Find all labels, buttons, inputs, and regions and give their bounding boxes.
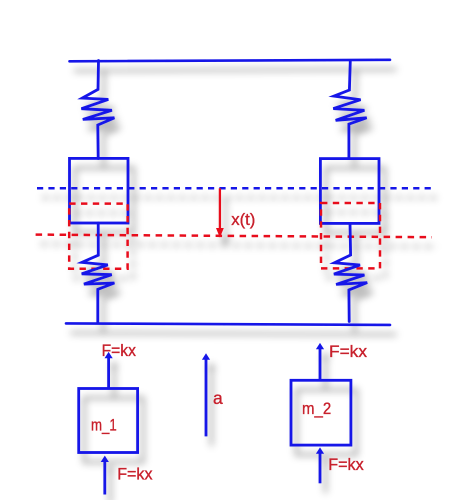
svg-text:F=kx: F=kx: [117, 465, 153, 484]
displaced dashed line (red): [36, 235, 432, 238]
spring K3 lower-left: [82, 223, 115, 323]
FBD left: spring force arrow up (bottom): [101, 456, 109, 495]
displaced mass left (red dashed): [69, 204, 127, 269]
spring K4 lower-right: [334, 223, 367, 321]
FBD right: mass box m_2: [291, 380, 351, 445]
FBD right: spring force arrow up (top): [316, 343, 324, 380]
svg-text:m_2: m_2: [302, 400, 331, 418]
mass block right (solid): [320, 159, 379, 224]
FBD left: mass box m_1: [79, 389, 138, 453]
spring K1 upper-left: [81, 61, 114, 159]
svg-text:x(t): x(t): [231, 210, 255, 229]
displaced mass right (red dashed): [321, 203, 380, 268]
bottom fixed wall line: [66, 323, 390, 325]
svg-text:a: a: [213, 388, 223, 408]
FBD right: spring force arrow up (bottom): [316, 447, 324, 483]
svg-text:F=kx: F=kx: [329, 342, 368, 361]
displacement arrow x(t): [216, 188, 224, 237]
equilibrium dashed line (blue): [37, 187, 434, 190]
svg-text:F=kx: F=kx: [328, 455, 364, 474]
FBD left: spring force arrow up (top): [105, 352, 113, 388]
svg-text:F=kx: F=kx: [102, 341, 137, 360]
acceleration arrow a (middle): [202, 353, 210, 436]
spring K2 upper-right: [333, 61, 366, 159]
mass block left (solid): [70, 158, 129, 223]
top fixed wall line: [70, 60, 391, 62]
svg-text:m_1: m_1: [91, 416, 117, 434]
